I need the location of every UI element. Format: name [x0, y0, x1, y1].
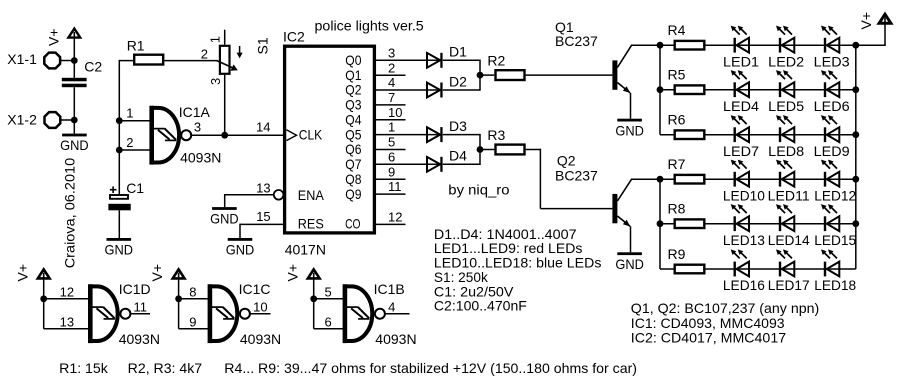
svg-text:Q9: Q9	[345, 186, 361, 202]
IC2 pin 13 (ENA) bubble and wire to GND	[225, 181, 284, 208]
svg-text:LED14: LED14	[768, 232, 810, 248]
svg-text:LED7: LED7	[723, 143, 759, 159]
wire C2 to X1-2 / GND	[73, 87, 75, 133]
svg-text:Craiova, 06.2010: Craiova, 06.2010	[62, 158, 78, 269]
svg-text:Q1: Q1	[345, 67, 361, 83]
wire Q1 collector bus (rows 1-3)	[659, 44, 661, 134]
ground (C1)	[105, 238, 134, 258]
ground (ENA pin 13)	[210, 207, 239, 227]
note LED1...LED9 value	[434, 240, 583, 256]
svg-text:Q1, Q2: BC107,237 (any npn): Q1, Q2: BC107,237 (any npn)	[631, 300, 819, 316]
svg-text:C1: C1	[126, 180, 144, 196]
svg-text:R1: R1	[127, 38, 145, 54]
resistor R2 4k7	[487, 53, 524, 81]
power symbol V+ (IC1C)	[149, 264, 184, 299]
NAND gate IC1C (4093N)	[189, 281, 281, 347]
transistor Q1 BC237	[555, 19, 660, 119]
junction node D1/D2/R2	[477, 72, 484, 79]
svg-text:10: 10	[388, 105, 402, 120]
svg-text:C2: C2	[84, 58, 102, 74]
svg-text:LED12: LED12	[814, 187, 856, 203]
svg-text:RES: RES	[298, 216, 324, 232]
LED18	[814, 249, 856, 293]
ground (input)	[60, 134, 89, 154]
capacitor C1 2u2 (polarized)	[108, 180, 144, 238]
svg-text:R9: R9	[668, 246, 686, 262]
LED14	[768, 204, 810, 248]
connector pad X1-2	[7, 111, 74, 128]
svg-text:4093N: 4093N	[119, 331, 160, 347]
junction node right bus row 2	[852, 86, 859, 93]
note R1 value	[59, 360, 109, 376]
svg-text:6: 6	[325, 315, 332, 330]
svg-text:4093N: 4093N	[240, 331, 281, 347]
svg-text:Q4: Q4	[345, 112, 361, 128]
svg-text:10: 10	[253, 300, 267, 315]
svg-text:C2:100..470nF: C2:100..470nF	[434, 298, 527, 314]
svg-text:Q7: Q7	[345, 156, 361, 172]
diode D2 1N4001	[427, 73, 467, 97]
svg-text:LED18: LED18	[814, 277, 856, 293]
IC2 output Q4 (pin 10)	[345, 105, 405, 128]
LED9	[814, 115, 850, 159]
svg-text:Q6: Q6	[345, 141, 361, 157]
power symbol V+ (IC1B)	[284, 264, 319, 299]
note C1 value	[434, 283, 514, 299]
resistor R9	[668, 246, 705, 274]
resistor R8	[668, 201, 705, 229]
svg-text:V+: V+	[46, 28, 62, 46]
LED11	[768, 160, 810, 204]
note R2, R3 value	[128, 360, 203, 376]
svg-text:LED4: LED4	[723, 98, 759, 114]
power symbol V+ (LED supply, top right)	[856, 12, 891, 45]
IC2 pin 15 (RES) wire to GND	[240, 209, 283, 238]
svg-text:GND: GND	[226, 242, 255, 258]
wire IC1A input pins	[119, 121, 149, 150]
svg-text:6: 6	[388, 149, 395, 164]
wire D3/D4 to R3	[443, 134, 495, 165]
diode D3 1N4001	[427, 118, 467, 142]
note D1..D4 value	[434, 226, 577, 242]
note IC2 types	[631, 330, 787, 346]
power symbol V+ (input supply, top left)	[46, 28, 81, 46]
junction node S1 pin3 / CLK wire	[221, 132, 228, 139]
svg-text:Q3: Q3	[345, 97, 361, 113]
svg-text:LED9: LED9	[814, 143, 850, 159]
svg-text:13: 13	[256, 181, 270, 196]
svg-text:X1-1: X1-1	[7, 51, 37, 67]
svg-text:GND: GND	[615, 256, 644, 272]
svg-text:V+: V+	[858, 12, 874, 30]
junction node right bus row 3	[852, 131, 859, 138]
svg-text:LED15: LED15	[814, 232, 856, 248]
note S1 value	[434, 269, 489, 285]
svg-text:LED2: LED2	[768, 53, 804, 69]
svg-text:4: 4	[388, 300, 395, 315]
svg-text:13: 13	[60, 315, 74, 330]
svg-text:LED1: LED1	[723, 53, 759, 69]
svg-text:12: 12	[388, 210, 402, 225]
svg-text:Q8: Q8	[345, 171, 361, 187]
junction node left bus row 4	[657, 176, 664, 183]
wire row R7 / LED10-12	[660, 178, 856, 180]
IC2 output Q1 (pin 2)	[345, 60, 405, 83]
note C2 value	[434, 298, 527, 314]
wire IC1C input pins	[179, 298, 210, 329]
svg-text:LED11: LED11	[768, 187, 810, 203]
junction node R1/C1/IC1A pin1	[116, 117, 123, 124]
wire V+ to X1-1 node	[73, 38, 75, 78]
svg-text:R5: R5	[668, 67, 686, 83]
junction node right bus row 1	[852, 42, 859, 49]
title: police lights ver.5	[315, 17, 424, 33]
junction node IC1B inputs	[310, 295, 317, 302]
wire D1/D2 to R2	[443, 60, 495, 91]
svg-text:1: 1	[388, 120, 395, 135]
svg-text:V+: V+	[14, 264, 30, 282]
LED17	[768, 249, 810, 293]
svg-text:3: 3	[194, 120, 201, 135]
resistor R6	[668, 112, 705, 140]
resistor R4	[668, 22, 705, 50]
svg-text:9: 9	[388, 164, 395, 179]
svg-text:LED8: LED8	[768, 143, 804, 159]
wire Q2 collector bus (rows 4-6)	[659, 178, 661, 269]
svg-text:4093N: 4093N	[180, 149, 221, 165]
LED4	[723, 70, 759, 114]
wire row R6 / LED7-9	[660, 134, 856, 136]
junction node left bus row 1	[657, 42, 664, 49]
svg-text:R1: 15k: R1: 15k	[59, 360, 109, 376]
IC2 output Q5 (pin 1)	[345, 120, 441, 143]
junction node right bus row 5	[852, 220, 859, 227]
svg-text:R2, R3: 4k7: R2, R3: 4k7	[128, 360, 203, 376]
IC2 output Q7 (pin 6)	[345, 149, 441, 172]
IC2 output Q8 (pin 9)	[345, 164, 405, 187]
svg-text:D4: D4	[449, 148, 467, 164]
NAND gate IC1B (4093N)	[325, 281, 417, 347]
wire R1 right to S1 wiper	[164, 60, 217, 62]
svg-text:IC2: IC2	[283, 29, 305, 45]
resistor R1	[127, 38, 164, 65]
svg-text:R4... R9: 39...47 ohms for sta: R4... R9: 39...47 ohms for stabilized +1…	[224, 360, 637, 376]
junction node left bus row 2	[657, 86, 664, 93]
IC2 carry out CO (pin 12)	[375, 210, 406, 225]
LED12	[814, 160, 856, 204]
svg-text:Q2: Q2	[345, 82, 361, 98]
svg-text:4: 4	[388, 75, 395, 90]
ground (Q1 emitter)	[615, 119, 644, 139]
resistor R5	[668, 67, 705, 95]
svg-text:GND: GND	[615, 122, 644, 138]
svg-text:LED5: LED5	[768, 98, 804, 114]
svg-text:R7: R7	[668, 156, 686, 172]
svg-text:14: 14	[256, 119, 270, 134]
svg-text:15: 15	[256, 209, 270, 224]
wire row R9 / LED16-18	[660, 268, 856, 270]
IC2 output Q2 (pin 4)	[345, 75, 441, 98]
svg-text:Q5: Q5	[345, 126, 361, 142]
svg-text:12: 12	[60, 285, 74, 300]
note Craiova, 06.2010 (rotated)	[62, 158, 78, 269]
wire row R8 / LED13-15	[660, 223, 856, 225]
svg-text:R2: R2	[487, 53, 505, 69]
svg-text:IC1: CD4093, MMC4093: IC1: CD4093, MMC4093	[631, 315, 785, 331]
diode D4 1N4001	[427, 148, 467, 172]
IC2 output Q0 (pin 3)	[345, 45, 441, 68]
NAND gate IC1D (4093N)	[60, 281, 160, 347]
svg-text:X1-2: X1-2	[7, 111, 37, 127]
svg-text:police lights ver.5: police lights ver.5	[315, 17, 424, 33]
LED1	[723, 26, 759, 70]
ground (Q2 emitter)	[615, 252, 644, 272]
svg-text:V+: V+	[284, 264, 300, 282]
svg-text:5: 5	[325, 285, 332, 300]
svg-text:4093N: 4093N	[375, 331, 416, 347]
svg-text:ENA: ENA	[298, 187, 325, 203]
ground (RES pin 15)	[226, 238, 255, 258]
capacitor C2	[62, 58, 103, 87]
svg-text:LED10: LED10	[723, 187, 765, 203]
LED10	[723, 160, 765, 204]
svg-text:1: 1	[126, 106, 133, 121]
wire IC1A output to IC2 CLK (pin 14)	[191, 134, 283, 136]
IC2 output Q9 (pin 11)	[345, 179, 405, 202]
LED13	[723, 204, 765, 248]
IC2 output Q6 (pin 5)	[345, 135, 405, 158]
svg-text:LED3: LED3	[814, 53, 850, 69]
wire R1 left to IC1A inputs and C1	[119, 60, 133, 194]
svg-text:R3: R3	[487, 127, 505, 143]
wire R3 to Q2 base	[526, 149, 613, 209]
svg-text:2: 2	[126, 135, 133, 150]
LED7	[723, 115, 759, 159]
svg-text:4017N: 4017N	[285, 242, 326, 258]
note IC1 types	[631, 315, 785, 331]
svg-text:IC1B: IC1B	[374, 281, 405, 297]
LED8	[768, 115, 804, 159]
svg-text:9: 9	[189, 315, 196, 330]
junction node IC1D inputs	[40, 295, 47, 302]
note R4...R9 value	[224, 360, 637, 376]
svg-text:1: 1	[208, 36, 223, 43]
power symbol V+ (IC1D)	[14, 264, 49, 299]
svg-text:D1: D1	[449, 44, 467, 60]
LED5	[768, 70, 804, 114]
svg-text:11: 11	[134, 300, 148, 315]
wire row R4 / LED1-3	[660, 44, 856, 46]
note by niq_ro	[448, 181, 509, 197]
junction node IC1C inputs	[175, 295, 182, 302]
note Q1, Q2 types	[631, 300, 819, 316]
junction node D3/D4/R3	[477, 146, 484, 153]
svg-text:5: 5	[388, 135, 395, 150]
IC2 4017N box	[283, 29, 374, 258]
connector pad X1-1	[7, 51, 74, 69]
svg-text:2: 2	[201, 47, 208, 62]
potentiometer S1 250k	[201, 30, 271, 136]
wire IC1B input pins	[314, 298, 345, 329]
svg-text:V+: V+	[149, 264, 165, 282]
svg-text:Q0: Q0	[345, 52, 361, 68]
svg-text:LED16: LED16	[723, 277, 765, 293]
junction node right bus row 4	[852, 176, 859, 183]
LED3	[814, 26, 850, 70]
svg-text:R4: R4	[668, 22, 686, 38]
svg-text:GND: GND	[210, 211, 239, 227]
svg-text:R8: R8	[668, 201, 686, 217]
svg-text:IC1C: IC1C	[239, 281, 271, 297]
wire R2 to Q1 base	[526, 74, 613, 76]
resistor R3 4k7	[487, 127, 524, 155]
svg-text:Q2: Q2	[557, 153, 576, 169]
NAND gate IC1A (4093N)	[126, 104, 221, 166]
svg-text:3: 3	[208, 78, 223, 85]
wire row R5 / LED4-6	[660, 89, 856, 91]
diode D1 1N4001	[427, 44, 467, 68]
svg-text:11: 11	[388, 179, 402, 194]
svg-text:D3: D3	[449, 118, 467, 134]
LED16	[723, 249, 765, 293]
LED6	[814, 70, 850, 114]
svg-text:D2: D2	[449, 73, 467, 89]
svg-text:CLK: CLK	[299, 127, 323, 143]
IC2 output Q3 (pin 7)	[345, 90, 405, 113]
svg-text:LED6: LED6	[814, 98, 850, 114]
svg-text:LED13: LED13	[723, 232, 765, 248]
svg-text:BC237: BC237	[555, 168, 598, 184]
svg-text:8: 8	[189, 285, 196, 300]
svg-text:3: 3	[388, 45, 395, 60]
svg-text:LED17: LED17	[768, 277, 810, 293]
svg-text:BC237: BC237	[555, 33, 598, 49]
IC2 pin 14 number	[256, 119, 270, 134]
svg-text:IC2: CD4017, MMC4017: IC2: CD4017, MMC4017	[631, 330, 787, 346]
svg-text:GND: GND	[60, 137, 89, 153]
svg-text:IC1D: IC1D	[119, 281, 151, 297]
svg-text:2: 2	[388, 60, 395, 75]
transistor Q2 BC237	[555, 153, 660, 253]
junction node IC1A pin2	[116, 147, 123, 154]
svg-text:IC1A: IC1A	[179, 104, 211, 120]
wire IC1D input pins	[44, 298, 91, 329]
wire V+ LED bus (right)	[855, 44, 857, 269]
svg-text:7: 7	[388, 90, 395, 105]
svg-text:R6: R6	[668, 112, 686, 128]
LED15	[814, 204, 856, 248]
junction node X1-2	[71, 117, 78, 124]
resistor R7	[668, 156, 705, 184]
junction node X1-1 / C2 / V+	[71, 57, 78, 64]
svg-text:S1: S1	[255, 37, 271, 54]
note LED10..LED18 value	[434, 255, 601, 271]
svg-text:CO: CO	[345, 216, 360, 232]
LED2	[768, 26, 804, 70]
svg-text:GND: GND	[105, 242, 134, 258]
svg-text:by niq_ro: by niq_ro	[448, 181, 509, 197]
junction node left bus row 5	[657, 220, 664, 227]
